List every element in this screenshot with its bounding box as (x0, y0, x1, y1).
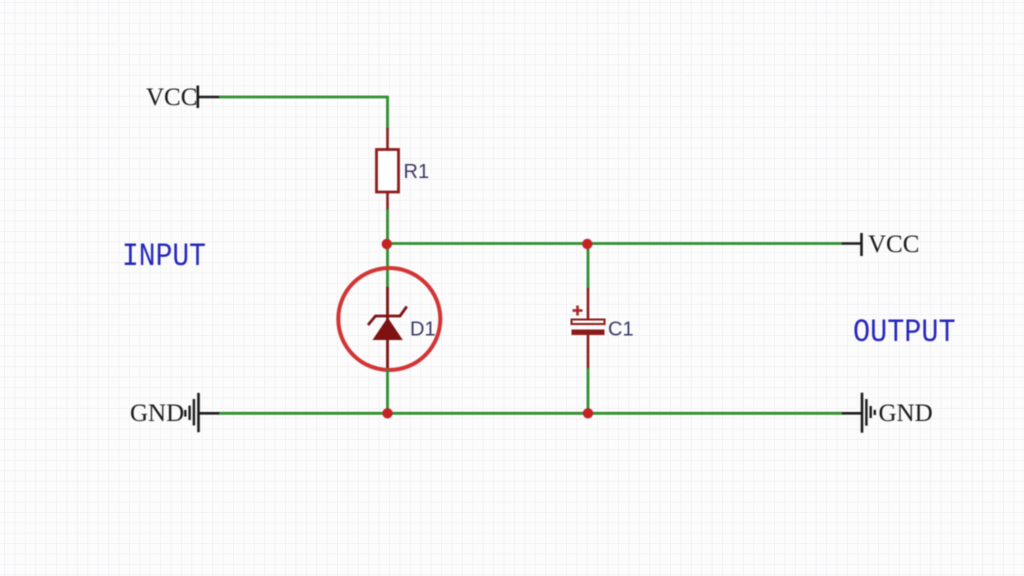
highlight circle around D1 (338, 268, 440, 370)
wire: VCC flag to top corner (219, 96, 388, 99)
wire: C1 to node D (587, 368, 590, 413)
net flag VCC (right) (842, 231, 919, 258)
wire: D1 to node C (386, 370, 389, 414)
junction node C (382, 408, 392, 418)
junction node A (382, 239, 392, 249)
wire: R1 to node A (386, 209, 389, 244)
wire: node A down to D1 (386, 244, 389, 289)
wire: node B down to C1 (587, 244, 590, 290)
svg-text:GND: GND (130, 400, 184, 427)
svg-text:VCC: VCC (868, 231, 919, 258)
net flag VCC (top-left) (146, 84, 220, 111)
ground symbol GND (right) (842, 393, 933, 433)
svg-text:INPUT: INPUT (122, 239, 206, 275)
svg-text:R1: R1 (404, 161, 430, 183)
svg-text:GND: GND (879, 400, 933, 427)
wire: corner down to R1 (386, 96, 389, 129)
svg-text:VCC: VCC (146, 84, 197, 111)
zener diode D1 (368, 287, 407, 371)
svg-text:OUTPUT: OUTPUT (853, 314, 956, 351)
resistor R1 (377, 128, 399, 210)
capacitor C1 (572, 288, 605, 369)
ground symbol GND (left) (130, 393, 219, 432)
wire: bottom rail GND-left to GND-right (218, 412, 843, 415)
wire: node A to node B (horizontal) (388, 242, 588, 245)
wire: node B to VCC right (588, 242, 843, 245)
plus sign of C1 (573, 306, 583, 316)
svg-text:D1: D1 (410, 319, 436, 341)
junction node D (583, 408, 593, 418)
svg-text:C1: C1 (608, 319, 634, 341)
junction node B (582, 239, 592, 249)
